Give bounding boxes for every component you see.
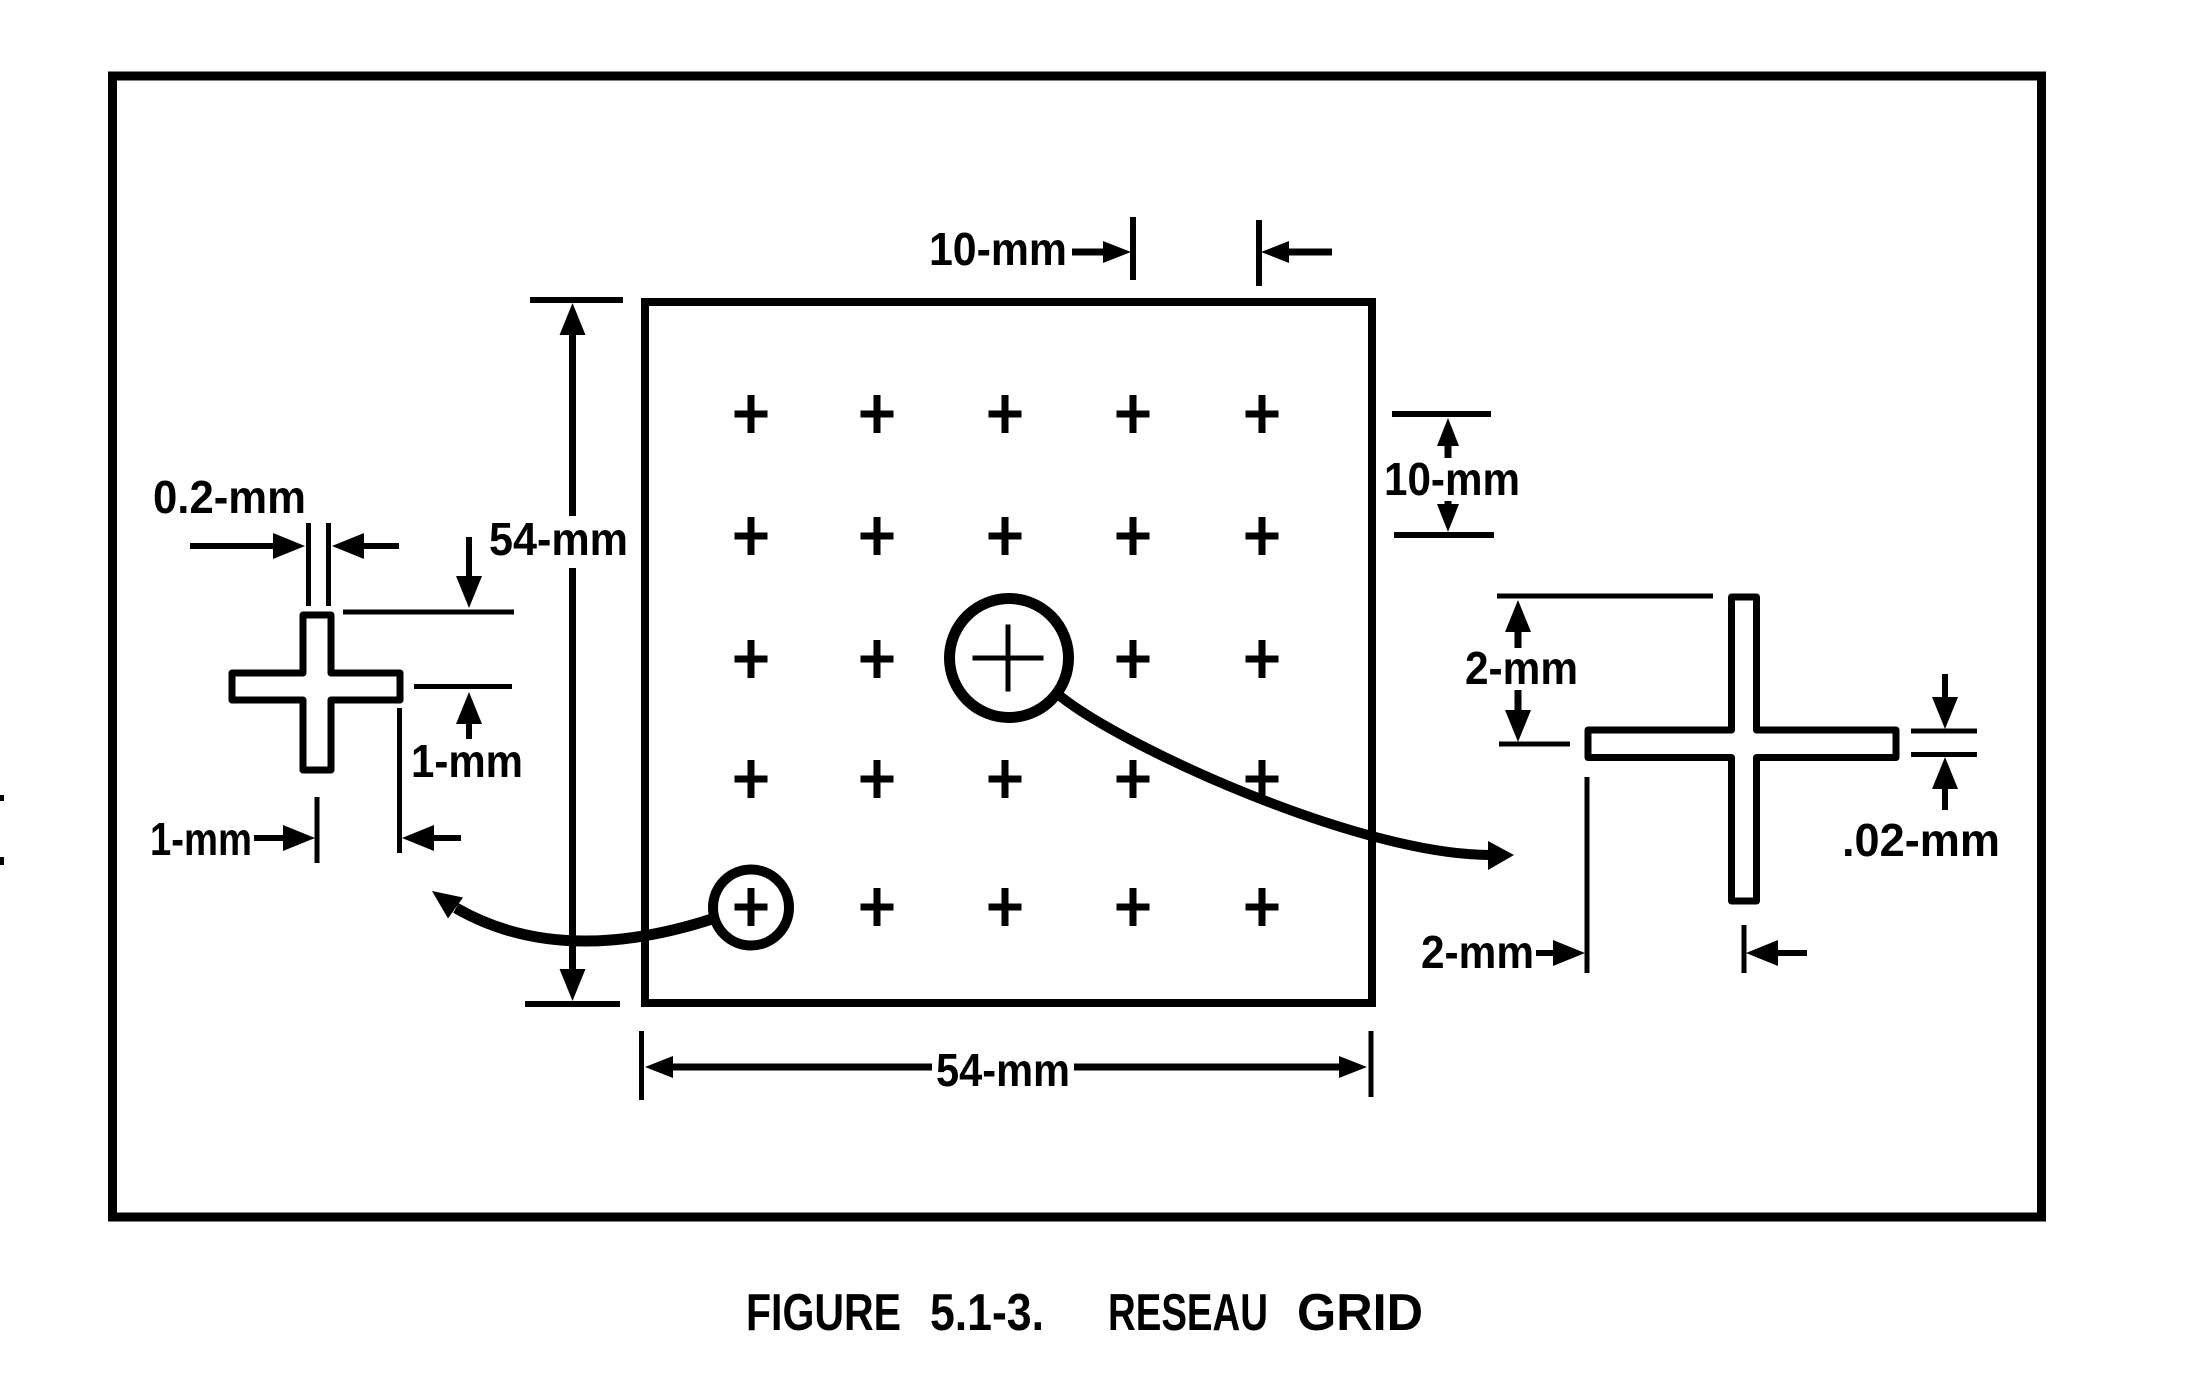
svg-text:5.1-3.: 5.1-3. — [930, 1284, 1044, 1342]
svg-text:.02-mm: .02-mm — [1842, 814, 2000, 866]
svg-text:10-mm: 10-mm — [929, 223, 1067, 275]
svg-text:GRID: GRID — [1297, 1284, 1423, 1342]
svg-text:54-mm: 54-mm — [489, 513, 628, 565]
svg-text:1-mm: 1-mm — [411, 735, 523, 787]
svg-text:2-mm: 2-mm — [1465, 642, 1578, 694]
svg-text:1-mm: 1-mm — [150, 813, 252, 865]
svg-text:2-mm: 2-mm — [1421, 926, 1534, 978]
svg-text:10-mm: 10-mm — [1384, 453, 1520, 505]
svg-text:RESEAU: RESEAU — [1108, 1284, 1268, 1342]
svg-text:0.2-mm: 0.2-mm — [153, 471, 306, 523]
svg-text:FIGURE: FIGURE — [746, 1284, 901, 1342]
svg-text:54-mm: 54-mm — [936, 1044, 1070, 1096]
